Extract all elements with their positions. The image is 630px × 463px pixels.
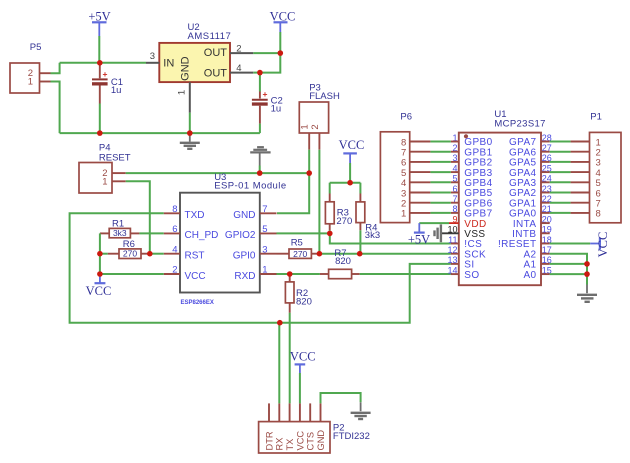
connector P5 [10,42,51,93]
junction A0 [584,271,590,277]
junction VCC rail [347,180,353,186]
ground symbol at VSS rotated [435,224,441,242]
svg-text:1: 1 [401,209,406,220]
+5V supply symbol [88,10,110,36]
wire VDD to +5V [419,222,449,224]
svg-text:VCC: VCC [185,271,206,282]
U1 pin 20 INTA [513,214,552,229]
regulator U2 AMS1117 [159,22,231,82]
wire GPA0 to P1 [550,212,571,214]
ground symbol lower right [577,285,597,302]
P2 pin TX [285,403,295,450]
wire GPB5 to P6 [430,192,450,194]
wire to ESP VCC pin [100,273,164,275]
svg-text:TXD: TXD [185,210,205,221]
VCC supply symbol top [270,10,296,32]
wire GPIO2 to R3 [277,232,330,234]
junction ground net [257,170,263,176]
U3 pin 1 RXD [234,265,276,282]
U3 pin 8 TXD [164,204,205,221]
U2 pin 4 OUT [230,63,253,74]
U1 pin 4 GPB3 [451,163,493,178]
wire R6 to RST [150,253,164,255]
VCC supply symbol mid [339,138,365,163]
svg-text:FTDI232: FTDI232 [333,431,370,442]
svg-text:ESP-01 Module: ESP-01 Module [214,181,286,192]
P2 pin DTR [264,403,274,450]
wire GPB3 to P6 [430,171,450,173]
P1 pin 3 [571,158,601,169]
wire FLASH pin1 to ESP GND [277,173,309,213]
svg-text:820: 820 [296,297,312,308]
U3 pin 7 GND [233,204,276,221]
svg-text:RST: RST [185,251,205,262]
U1 pin 27 GPA6 [509,143,552,158]
wire GPA2 to P1 [550,192,571,194]
wire R1 to CH_PD [139,232,163,234]
wire R2 to FTDI TX [289,313,291,404]
P2 pin GND [316,403,326,450]
connector P3 FLASH [299,83,340,150]
junction OUT2/VCC [278,50,284,56]
resistor R4 3k3 [356,183,380,254]
U1 pin 2 GPB1 [451,143,493,158]
U1 pin 19 INTB [512,225,552,240]
svg-text:270: 270 [123,249,137,259]
U2 pin 1 GND [177,82,190,113]
VCC supply symbol lower left [86,274,112,298]
svg-text:820: 820 [335,256,351,267]
U1 pin 21 GPA0 [509,204,552,219]
wire C2 bottom [259,124,261,134]
svg-text:DTR: DTR [264,431,274,450]
wire GPB7 to P6 [430,212,450,214]
U1 pin 16 A1 [523,255,551,270]
wire VCC stem mid [349,163,351,183]
wire P5 pin2 to +5V rail [51,63,60,73]
wire FTDI GND to ground [321,393,361,403]
wire TXD to MCP SI [70,213,451,322]
wire A1 [550,263,587,265]
connector P2 FTDI232 [259,422,370,453]
capacitor C2 1u [252,73,283,124]
svg-text:OUT: OUT [204,67,228,79]
P6 pin 2 [401,199,430,210]
svg-text:GPIO2: GPIO2 [225,230,256,241]
module U3 ESP-01 [180,172,287,306]
wire U2 GND down [189,113,191,133]
wire R6 left [100,253,108,255]
P6 pin 4 [401,178,430,189]
junction FTDI RX drop [277,320,283,326]
svg-text:VCC: VCC [339,138,365,152]
U1 pin 3 GPB2 [451,153,493,168]
wire GPIO2 to MCP CS [330,233,451,243]
U1 pin 13 SI [447,255,474,270]
U1 pin 15 A0 [523,265,551,280]
capacitor C1 1u [92,63,123,104]
svg-text:AMS1117: AMS1117 [188,31,232,42]
wire FLASH pin2 down to GPI0 net [318,150,320,254]
wire P4 pin1 to RST [126,181,150,253]
U2 pin 3 IN [146,51,159,63]
svg-text:1: 1 [102,177,107,188]
P6 pin 8 [401,137,430,148]
junction R1/R6/VCC [97,251,103,257]
svg-text:VCC: VCC [596,232,610,258]
resistor R7 820 [320,248,360,279]
junction C1 top [97,60,103,66]
resistor R2 820 [285,274,311,313]
P6 pin 6 [401,158,430,169]
wire GPB4 to P6 [430,181,450,183]
P2 pin RX [275,403,285,450]
P1 pin 7 [571,199,601,210]
svg-text:1: 1 [28,77,33,88]
svg-text:3: 3 [150,51,155,62]
wire RESET to VCC [550,243,591,245]
junction U2 GND [187,130,193,136]
U1 pin 23 GPA2 [509,184,552,199]
junction C1 bottom [97,130,103,136]
svg-text:R5: R5 [291,238,303,249]
wire P5 pin1 to GND rail [51,82,60,134]
svg-text:CTS: CTS [306,432,316,451]
svg-text:ESP8266EX: ESP8266EX [181,300,214,306]
U1 pin 12 SCK [447,245,486,260]
IC U1 MCP23S17 [459,109,546,285]
U1 pin 7 GPB6 [451,194,493,209]
svg-text:CH_PD: CH_PD [185,230,219,241]
wire GPB0 to P6 [430,141,450,143]
svg-text:1u: 1u [111,85,122,96]
svg-text:3k3: 3k3 [365,230,380,241]
svg-text:GND: GND [180,56,192,81]
wire GPA4 to P1 [550,171,571,173]
wire RXD to R2 node [277,273,290,275]
wire GPI0 net to MCP SCK [319,253,450,255]
P2 pin VCC [295,403,305,450]
svg-text:8: 8 [596,209,601,220]
P1 pin 1 [571,137,601,148]
svg-text:270: 270 [293,249,307,259]
P1 pin 2 [571,148,601,159]
junction R5/FLASH2 [317,251,323,257]
U3 pin 3 GPI0 [233,244,277,261]
svg-text:RXD: RXD [234,271,255,282]
svg-text:1u: 1u [271,104,282,115]
U1 pin 8 GPB7 [451,204,493,219]
U1 pin 5 GPB4 [451,174,493,189]
svg-text:270: 270 [336,216,352,227]
P2 pin CTS [306,403,316,450]
wire GPA5 to P1 [550,161,571,163]
wire +5V stem [98,36,100,63]
U1 pin 10 VSS [441,225,486,240]
wire GPB2 to P6 [430,161,450,163]
P6 pin 3 [401,188,430,199]
svg-text:VCC: VCC [290,350,316,364]
VCC supply symbol right rotated [590,232,610,258]
svg-text:VCC: VCC [295,431,305,451]
connector P6 [380,112,412,223]
U3 pin 4 RST [164,244,205,261]
resistor R1 3k3 [100,219,139,239]
wire GND rail bottom [60,132,260,134]
VCC supply symbol at FTDI [290,350,316,373]
svg-text:2: 2 [310,124,321,129]
U1 pin 11 !CS [448,235,482,250]
U1 pin 6 GPB5 [451,184,493,199]
svg-text:RX: RX [275,438,285,451]
junction VCC/ESP VCC [97,271,103,277]
svg-text:TX: TX [285,439,295,451]
wire A2 to ground [550,254,587,285]
wire VCC branch down [99,254,101,274]
P1 pin 5 [571,178,601,189]
svg-text:+5V: +5V [408,232,430,246]
P6 pin 5 [401,168,430,179]
U1 pin 9 VDD [449,214,487,229]
wire GPA7 to P1 [550,141,571,143]
wire GPB6 to P6 [430,202,450,204]
junction R4 bottom [357,251,363,257]
+5V supply symbol at VDD [408,223,430,246]
U1 pin 14 SO [447,265,479,280]
wire FTDI RX up [278,323,280,404]
wire FTDI VCC stem [299,373,301,403]
P1 pin 8 [571,209,601,220]
wire GPB1 to P6 [430,151,450,153]
wire GPA3 to P1 [550,181,571,183]
ground symbol under U2 [180,133,200,149]
svg-text:P6: P6 [400,112,412,123]
svg-text:FLASH: FLASH [309,91,340,102]
connector P1 [590,112,622,223]
junction FLASH pin1 node [306,170,312,176]
U1 pin 28 GPA7 [509,133,552,148]
svg-text:VCC: VCC [86,284,112,298]
wire GPA6 to P1 [550,151,571,153]
wire VCC stem top [279,32,281,53]
U1 pin 1 GPB0 [451,133,493,148]
wire R1 left down [99,233,101,253]
wire to R7 [290,273,320,275]
wire U2 OUT4 to C2 [253,72,260,74]
connector P4 RESET [79,142,131,193]
resistor R5 270 [277,238,320,260]
svg-text:+: + [263,89,268,99]
U1 pin 17 A2 [523,245,551,260]
U1 pin 24 GPA3 [509,174,552,189]
svg-text:GND: GND [316,430,326,451]
wire C1 bottom [99,104,101,134]
wire P4 pin2 to ground net [126,172,310,174]
ground symbol inverted [250,147,270,173]
wire FLASH pin1 down [308,150,310,173]
junction R6/RST [147,251,153,257]
svg-text:+: + [103,69,108,79]
junction GPIO2/R3 [327,231,333,237]
U2 pin 2 OUT [230,44,253,55]
junction RXD/R2 [287,271,293,277]
wire GPA1 to P1 [550,202,571,204]
wire R7 to MCP SO [360,273,451,275]
wire U2 OUT2 to VCC [253,52,280,54]
junction OUT4/C2 [257,70,263,76]
U1 pin 22 GPA1 [509,194,552,209]
resistor R6 270 [108,239,150,259]
svg-text:SO: SO [464,270,479,281]
wire +5V rail top [60,62,146,64]
svg-text:OUT: OUT [204,47,228,59]
resistor R3 270 [325,183,352,234]
svg-text:3k3: 3k3 [113,228,127,238]
ground symbol at FTDI [351,402,371,419]
U3 pin 2 VCC [164,265,206,282]
svg-text:1: 1 [177,90,188,95]
svg-text:RESET: RESET [99,152,131,163]
U3 pin 5 GPIO2 [225,224,277,241]
P1 pin 4 [571,168,601,179]
junction A1 [584,261,590,267]
P6 pin 1 [401,209,430,220]
svg-text:A0: A0 [523,270,536,281]
svg-text:MCP23S17: MCP23S17 [494,118,545,129]
wire VCC rail R3/R4 [330,182,361,184]
U1 pin 26 GPA5 [509,153,552,168]
svg-text:P1: P1 [590,112,602,123]
svg-text:GPI0: GPI0 [233,251,256,262]
svg-text:IN: IN [163,57,174,69]
U3 pin 6 CH_PD [164,224,219,241]
P6 pin 7 [401,148,430,159]
svg-text:P5: P5 [30,42,42,53]
svg-text:GND: GND [233,210,255,221]
U1 pin 25 GPA4 [509,163,552,178]
wire OUT4 up to VCC node [260,53,280,73]
P1 pin 6 [571,188,601,199]
U1 pin 18 !RESET [498,235,552,250]
wire A0 [550,273,587,275]
